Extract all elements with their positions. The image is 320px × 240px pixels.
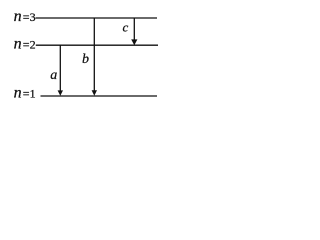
svg-text:=2: =2 <box>23 38 36 52</box>
svg-text:n: n <box>14 8 22 25</box>
svg-text:a: a <box>50 68 57 83</box>
svg-text:b: b <box>82 52 89 67</box>
svg-text:c: c <box>123 20 129 35</box>
svg-text:n: n <box>14 36 22 53</box>
svg-text:=3: =3 <box>23 10 36 24</box>
svg-text:n: n <box>14 85 22 102</box>
svg-text:=1: =1 <box>23 87 36 101</box>
